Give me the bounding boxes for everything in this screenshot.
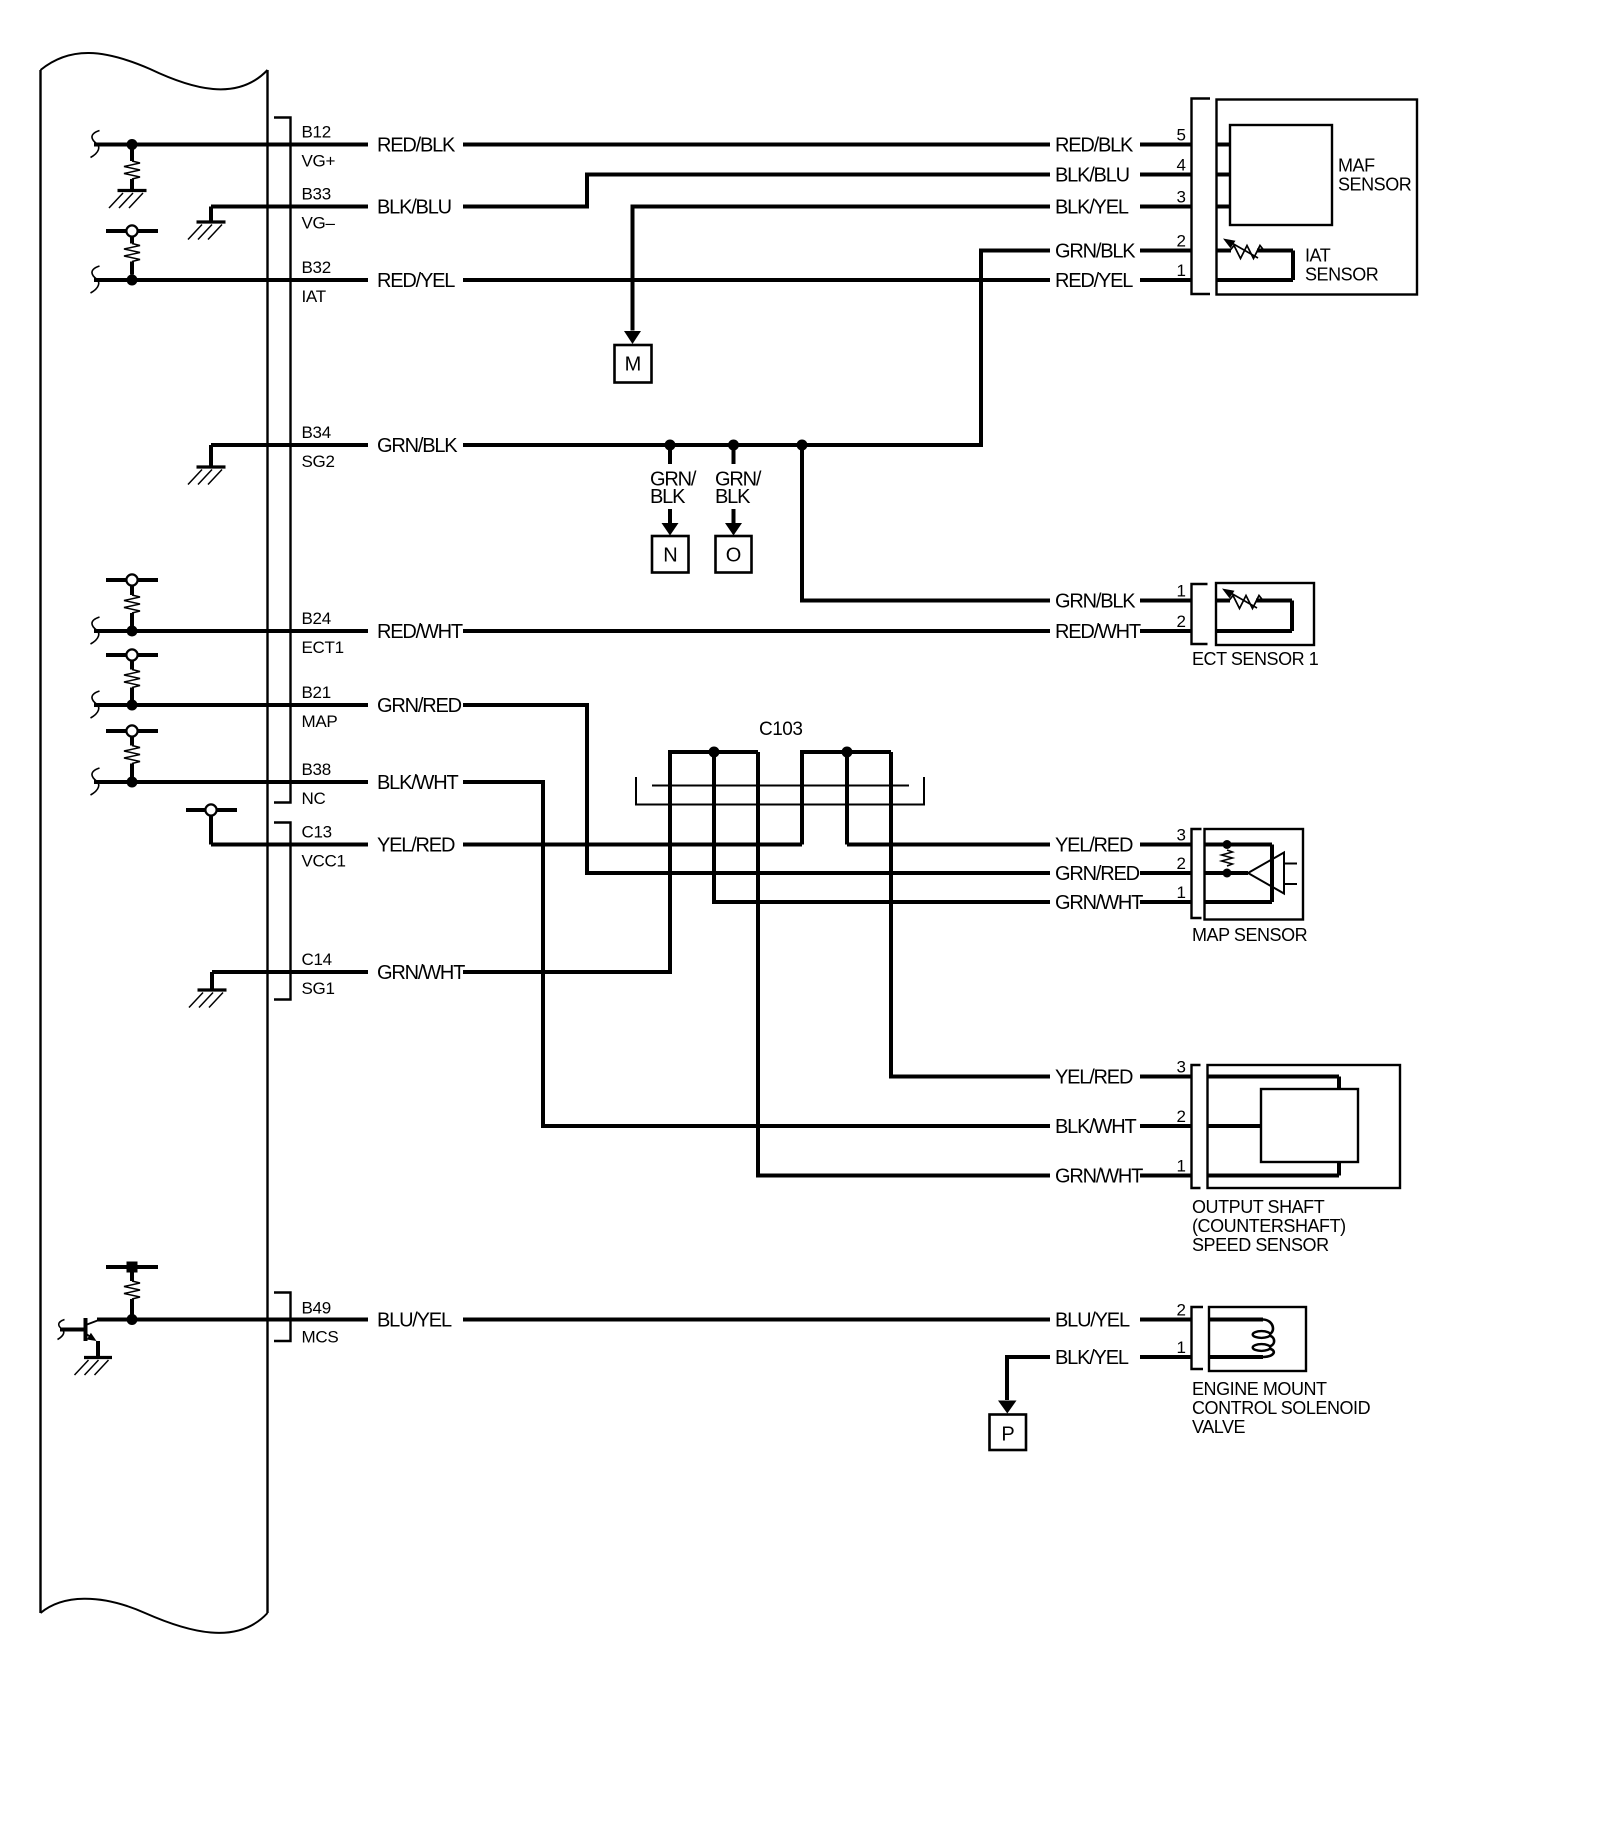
svg-text:BLU/YEL: BLU/YEL: [1055, 1310, 1130, 1332]
svg-text:GRN/WHT: GRN/WHT: [1055, 1166, 1143, 1188]
wire BLK/YEL to MAF pin3: [631, 205, 1192, 209]
wire GRN/BLK riser to MAF pin2: [979, 251, 1192, 448]
svg-text:2: 2: [1177, 1301, 1186, 1320]
svg-text:VCC1: VCC1: [302, 852, 346, 871]
wire GRN/WHT C14 (to C103): [463, 970, 672, 974]
svg-text:GRN/BLK: GRN/BLK: [1055, 591, 1136, 613]
connector ref box O: [716, 536, 752, 573]
wire C13 VCC1 internal: [211, 843, 368, 847]
connector ref box P: [990, 1415, 1027, 1451]
wire GRN/WHT (C103 to speed sensor pin1): [756, 1174, 1192, 1178]
svg-text:N: N: [663, 545, 677, 567]
svg-text:VG–: VG–: [302, 214, 336, 233]
resistor R4 (MAP pull-up): [106, 655, 158, 700]
wire MAF pin5 stub: [1217, 143, 1231, 147]
resistor R3 (ECT1 pull-up): [106, 580, 158, 626]
speed sensor element: [1261, 1089, 1358, 1162]
node (open terminal above R2): [126, 225, 137, 236]
svg-text:ECT SENSOR 1: ECT SENSOR 1: [1192, 649, 1319, 669]
svg-text:B32: B32: [302, 258, 331, 277]
inline connector C103: [636, 777, 924, 805]
speed sensor box: [1208, 1065, 1401, 1188]
wire YEL/RED (C103 to speed sensor pin3): [889, 1075, 1192, 1079]
svg-text:3: 3: [1177, 188, 1186, 207]
svg-text:B24: B24: [302, 609, 331, 628]
MAF sensor element: [1230, 125, 1332, 225]
solenoid valve box: [1209, 1307, 1306, 1371]
svg-text:IAT: IAT: [302, 287, 326, 306]
svg-text:RED/WHT: RED/WHT: [1055, 621, 1141, 643]
wire (BLK/YEL drop to M): [631, 207, 635, 331]
wire B38 NC internal: [91, 768, 369, 795]
svg-text:VG+: VG+: [302, 152, 336, 171]
svg-text:RED/YEL: RED/YEL: [1055, 270, 1133, 292]
connector bracket (speed sensor): [1192, 1065, 1201, 1188]
svg-text:GRN/WHT: GRN/WHT: [1055, 892, 1143, 914]
MAF sensor box: [1217, 100, 1418, 295]
node (open terminal above R4): [126, 649, 137, 660]
ground (below R1): [109, 191, 147, 209]
svg-text:2: 2: [1177, 1107, 1186, 1126]
wire YEL/RED (C103 to MAP pin3): [847, 843, 1192, 847]
svg-text:M: M: [625, 354, 642, 376]
svg-text:1: 1: [1177, 1338, 1186, 1357]
wire GRN/BLK B34 (SG2 bus): [463, 443, 983, 447]
connector ref box M: [615, 345, 652, 383]
node (tap to ECT): [797, 440, 808, 451]
svg-text:RED/WHT: RED/WHT: [377, 621, 463, 643]
svg-text:1: 1: [1177, 582, 1186, 601]
node (open terminal above R3): [126, 574, 137, 585]
thermistor IAT: [1217, 239, 1294, 281]
node (loop1 splice): [709, 747, 720, 758]
node (MAP pin2 tap): [1223, 869, 1232, 878]
wire C14 SG1 internal: [212, 970, 368, 974]
svg-text:GRN/WHT: GRN/WHT: [377, 962, 465, 984]
svg-text:O: O: [726, 545, 742, 567]
svg-text:BLK/WHT: BLK/WHT: [377, 772, 458, 794]
connector bracket (MAP sensor): [1192, 829, 1202, 918]
transistor Q1: [58, 1318, 99, 1356]
wire (SG2 tap to N): [668, 445, 672, 464]
ECM connector bracket B group: [274, 118, 291, 803]
svg-text:BLU/YEL: BLU/YEL: [377, 1310, 452, 1332]
svg-text:RED/BLK: RED/BLK: [1055, 135, 1134, 157]
node B24 junction: [127, 626, 138, 637]
svg-text:YEL/RED: YEL/RED: [377, 835, 455, 857]
connector ref M arrowhead: [624, 331, 641, 344]
MAP sensor box: [1205, 829, 1304, 920]
svg-text:RED/YEL: RED/YEL: [377, 270, 455, 292]
svg-text:(COUNTERSHAFT): (COUNTERSHAFT): [1192, 1216, 1346, 1236]
svg-text:ENGINE MOUNT: ENGINE MOUNT: [1192, 1379, 1327, 1399]
wire MAF pin3 stub: [1217, 205, 1231, 209]
ground (Q1 emitter): [75, 1358, 113, 1376]
wire (SG2 drop to ECT sensor): [800, 445, 1192, 603]
wire B24 ECT1 internal: [91, 617, 369, 644]
svg-text:1: 1: [1177, 1157, 1186, 1176]
resistor R6 (MCS pull-up): [106, 1262, 158, 1320]
resistor (MAP internal): [1222, 850, 1233, 866]
ECM connector bracket C group: [274, 823, 291, 1000]
resistor R5 (NC pull-up): [106, 731, 158, 777]
svg-text:B21: B21: [302, 683, 331, 702]
svg-text:1: 1: [1177, 261, 1186, 280]
wire (C103 loop 2: VCC1 splice): [802, 750, 891, 1079]
svg-text:1: 1: [1177, 883, 1186, 902]
svg-text:MCS: MCS: [302, 1328, 339, 1347]
svg-text:BLK/YEL: BLK/YEL: [1055, 1347, 1129, 1369]
node B38 junction: [127, 777, 138, 788]
svg-text:C13: C13: [302, 823, 332, 842]
svg-text:MAP SENSOR: MAP SENSOR: [1192, 925, 1308, 945]
wire BLK/BLU B33 to MAF pin4: [463, 173, 1192, 209]
node (tap to N): [665, 440, 676, 451]
svg-text:GRN/BLK: GRN/BLK: [1055, 241, 1136, 263]
svg-text:5: 5: [1177, 126, 1186, 145]
svg-text:2: 2: [1177, 854, 1186, 873]
node (VCC1 open terminal): [186, 810, 237, 845]
solenoid coil: [1209, 1320, 1274, 1358]
svg-text:C14: C14: [302, 950, 332, 969]
svg-text:ECT1: ECT1: [302, 638, 344, 657]
svg-text:B33: B33: [302, 185, 331, 204]
svg-text:RED/BLK: RED/BLK: [377, 135, 456, 157]
svg-text:NC: NC: [302, 789, 326, 808]
svg-text:YEL/RED: YEL/RED: [1055, 1067, 1133, 1089]
wire RED/BLK B12 to MAF pin5: [463, 143, 1192, 147]
ground (SG1): [189, 972, 227, 1008]
ground (SG2): [188, 445, 226, 485]
svg-text:SENSOR: SENSOR: [1305, 265, 1379, 285]
wire GRN/RED B21 to MAP pin2: [463, 703, 1192, 873]
wire (SG2 tap to O): [732, 445, 736, 464]
svg-text:B49: B49: [302, 1299, 331, 1318]
node B21 junction: [127, 700, 138, 711]
wire B33 VG- internal: [211, 205, 368, 209]
connector bracket (ECT sensor 1): [1192, 584, 1208, 644]
svg-text:YEL/RED: YEL/RED: [1055, 835, 1133, 857]
wire BLK/WHT B38 to speed sensor pin2: [463, 780, 1192, 1126]
svg-text:SG2: SG2: [302, 452, 335, 471]
ground (VG-): [188, 207, 226, 240]
connector bracket (solenoid valve): [1192, 1307, 1204, 1369]
wire B12 VG+ internal: [91, 131, 369, 158]
connector ref O arrow: [725, 509, 742, 536]
svg-text:GRN/RED: GRN/RED: [1055, 863, 1140, 885]
wire BLU/YEL B49 to solenoid pin2: [463, 1318, 1192, 1322]
ECT sensor 1 box: [1216, 583, 1314, 645]
svg-text:B34: B34: [302, 423, 331, 442]
node (MAP pin3 tap): [1223, 840, 1232, 849]
node B49 junction: [127, 1314, 138, 1325]
ECM connector bracket B49: [274, 1293, 291, 1342]
node (open terminal above R5): [126, 725, 137, 736]
connector ref N arrow: [662, 509, 679, 536]
wire (C103 loop 1: SG1 splice): [670, 750, 758, 1178]
wire B32 IAT internal: [91, 266, 369, 293]
svg-text:SG1: SG1: [302, 979, 335, 998]
wire RED/WHT B24 to ECT pin2: [463, 629, 1192, 633]
svg-text:3: 3: [1177, 826, 1186, 845]
svg-text:GRN/BLK: GRN/BLK: [377, 435, 458, 457]
ECM block torn outline: [41, 53, 268, 1633]
svg-text:MAF: MAF: [1338, 156, 1375, 176]
node (loop2 splice): [842, 747, 853, 758]
wire GRN/WHT (C103 to MAP pin1): [712, 900, 1192, 904]
speed sensor internal wires: [1208, 1077, 1340, 1176]
svg-text:GRN/RED: GRN/RED: [377, 695, 462, 717]
svg-text:2: 2: [1177, 612, 1186, 631]
resistor R2 (IAT pull-up): [106, 231, 158, 275]
svg-text:OUTPUT SHAFT: OUTPUT SHAFT: [1192, 1197, 1325, 1217]
resistor R1 (VG+ pull-down): [124, 145, 140, 190]
node (tap to O): [728, 440, 739, 451]
svg-text:C103: C103: [759, 719, 802, 740]
svg-text:BLK/BLU: BLK/BLU: [377, 197, 451, 219]
node B12 junction: [127, 139, 138, 150]
svg-text:BLK/WHT: BLK/WHT: [1055, 1116, 1136, 1138]
svg-text:IAT: IAT: [1305, 246, 1331, 266]
svg-text:P: P: [1001, 1424, 1014, 1446]
svg-text:BLK/BLU: BLK/BLU: [1055, 165, 1129, 187]
wire B34 SG2 internal: [211, 443, 368, 447]
svg-text:B12: B12: [302, 123, 331, 142]
thermistor ECT: [1216, 589, 1292, 632]
svg-text:3: 3: [1177, 1058, 1186, 1077]
svg-text:BLK: BLK: [650, 486, 686, 508]
svg-text:MAP: MAP: [302, 712, 338, 731]
svg-text:SPEED SENSOR: SPEED SENSOR: [1192, 1235, 1329, 1255]
svg-text:BLK/YEL: BLK/YEL: [1055, 197, 1129, 219]
svg-text:2: 2: [1177, 232, 1186, 251]
svg-text:SENSOR: SENSOR: [1338, 175, 1412, 195]
svg-text:4: 4: [1177, 156, 1186, 175]
wire RED/YEL B32 to MAF pin1: [463, 278, 1192, 282]
connector ref box N: [652, 536, 689, 573]
svg-text:B38: B38: [302, 760, 331, 779]
MAP internal wires: [1205, 845, 1273, 903]
wire B49 MCS internal: [97, 1318, 368, 1322]
connector ref P arrowhead: [998, 1401, 1017, 1414]
svg-text:BLK: BLK: [715, 486, 751, 508]
wire B21 MAP internal: [91, 691, 369, 718]
connector bracket (MAF sensor): [1192, 99, 1211, 295]
wire BLK/YEL solenoid pin1: [1005, 1357, 1192, 1400]
wire YEL/RED C13 (to C103): [463, 843, 802, 847]
wire MAF pin4 stub: [1217, 173, 1231, 177]
op-amp (MAP sensing element): [1248, 853, 1297, 894]
svg-text:CONTROL SOLENOID: CONTROL SOLENOID: [1192, 1398, 1371, 1418]
svg-text:VALVE: VALVE: [1192, 1417, 1246, 1437]
node B32 junction: [127, 275, 138, 286]
